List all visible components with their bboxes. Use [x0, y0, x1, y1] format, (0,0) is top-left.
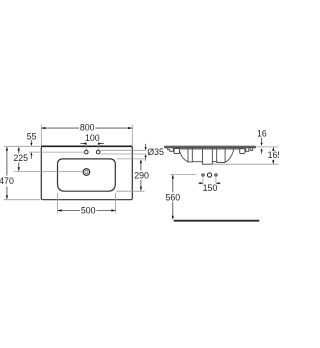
svg-text:560: 560	[165, 192, 180, 202]
svg-text:800: 800	[80, 123, 95, 133]
dimension 290 (bowl depth)	[117, 159, 150, 191]
floor line	[174, 220, 260, 222]
svg-text:500: 500	[81, 206, 96, 216]
dimension 165 (total depth)	[213, 147, 282, 164]
side view left bracket	[168, 148, 174, 151]
side view bowl left curve	[180, 152, 188, 162]
svg-text:225: 225	[13, 153, 28, 163]
dimension 100 (tap holes)	[80, 133, 104, 150]
dimension 150 (fixing hole spacing)	[198, 178, 220, 193]
svg-text:290: 290	[134, 170, 149, 180]
dimension 500 (bowl width)	[58, 193, 116, 216]
washbasin outer rect (top view)	[41, 146, 133, 199]
side view tab 3	[217, 148, 225, 162]
side view tab 2	[203, 148, 213, 164]
svg-text:470: 470	[0, 176, 14, 186]
side view under-rim line	[180, 148, 241, 150]
dimension 225 (edge to drain)	[13, 147, 82, 172]
svg-text:Ø35: Ø35	[147, 147, 164, 157]
side view rim (section)	[164, 146, 255, 148]
tap hole center	[85, 150, 89, 154]
dimension 560 (height from floor)	[165, 174, 196, 219]
dimension Ø35 (tap hole dia)	[100, 144, 164, 161]
dimension 470 (depth)	[0, 146, 40, 199]
side view left knob	[174, 148, 179, 153]
basin bowl (rounded)	[58, 159, 116, 191]
side view bowl right curve	[225, 148, 234, 162]
svg-text:165: 165	[268, 150, 279, 160]
drain hole	[83, 169, 90, 176]
svg-text:100: 100	[85, 133, 100, 143]
side view bowl bottom	[192, 161, 217, 163]
dimension 16 (rim thickness)	[256, 128, 278, 153]
side view right bracket	[246, 148, 253, 151]
svg-text:16: 16	[257, 128, 267, 138]
side view right knob	[240, 149, 245, 154]
dimension 55 (tap hole to edge)	[27, 132, 85, 159]
side view tab 1	[188, 148, 192, 162]
svg-text:55: 55	[27, 132, 37, 142]
dimension 800	[41, 123, 132, 146]
tap hole right	[96, 150, 100, 154]
svg-text:150: 150	[203, 183, 218, 193]
fixing holes	[202, 173, 217, 177]
